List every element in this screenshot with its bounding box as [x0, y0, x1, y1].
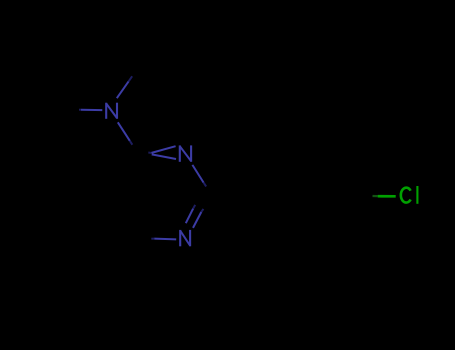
atom Cl (chlorine): [401, 186, 418, 204]
bond C2-C1' (link to chlorophenyl): [213, 195, 264, 197]
bond N1-C4: [118, 122, 138, 150]
bond C4=N3 (double bond, converging pair): [138, 146, 177, 159]
ring bond C4-C4a (carbon skeleton, black): [109, 151, 138, 197]
fused benzo ring (carbon skeleton, black): [32, 197, 136, 288]
atom N1 (ring nitrogen, lower): [180, 230, 190, 246]
bond N1-C8a: [136, 239, 176, 242]
chlorophenyl ring (carbon skeleton, black): [263, 158, 350, 233]
atom N1 (dimethylamino nitrogen): [106, 103, 117, 119]
atom N3 (ring nitrogen, upper): [180, 145, 191, 161]
bond N1-CH3 (left methyl): [60, 108, 102, 111]
bond C4'-Cl: [350, 195, 396, 198]
bond C2=N1 (ring double bond to lower nitrogen): [186, 193, 213, 228]
bond N3-C2: [192, 165, 212, 196]
bond N1-CH3 (top methyl): [117, 64, 141, 99]
